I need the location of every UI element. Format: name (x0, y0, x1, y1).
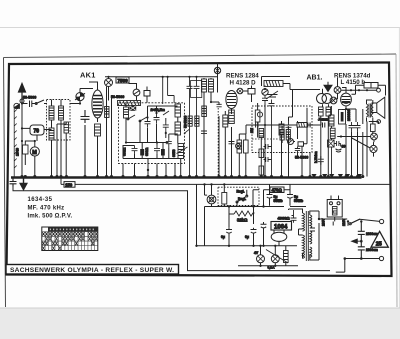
capacitor C35 (295, 147, 300, 153)
mains switch S5 (351, 219, 361, 224)
wires right section (337, 85, 385, 176)
wires in AVC box (282, 108, 310, 177)
trimmer C9 (163, 111, 169, 115)
coil L3 lower (49, 128, 54, 140)
label box 7500 (116, 77, 129, 83)
resistor R13 (284, 251, 289, 263)
electrolytic C40 (336, 149, 342, 152)
IF transformer T1 secondary (209, 79, 214, 92)
svg-text:4000Ω: 4000Ω (278, 216, 291, 221)
padder capacitor C8 (154, 114, 160, 124)
ladder capacitor C36 (264, 144, 272, 149)
ladder capacitor C37 (264, 157, 272, 162)
faint screenshot rule top (0, 27, 400, 29)
RENS1284 tube envelope (226, 91, 237, 109)
capacitor C19 (355, 122, 361, 131)
electrolytic C20 (267, 184, 273, 205)
capacitor C12 from top bus (187, 77, 193, 176)
circled jack lower right (371, 133, 378, 140)
label box two cells (364, 83, 378, 89)
coil L11a in AVC box (280, 130, 284, 141)
capacitor C44 AB1 cathode (318, 156, 324, 165)
power transformer T4 primary windings (303, 211, 312, 261)
wires detector (258, 77, 290, 177)
faint screenshot rule right (398, 28, 400, 339)
ground arrow (20, 178, 27, 190)
resistor R5 (223, 115, 228, 127)
earth lead arrow (14, 104, 19, 109)
lamp LP1 (257, 255, 265, 263)
resistor R7 in dashed box (255, 110, 260, 122)
jack circle small (236, 144, 241, 149)
valve data table (42, 227, 98, 251)
svg-text:2000cm: 2000cm (366, 248, 378, 252)
resistor R11 in box (222, 193, 227, 205)
svg-text:50-5000: 50-5000 (23, 96, 36, 100)
svg-text:1064: 1064 (274, 225, 288, 231)
wires AB1 (321, 78, 338, 177)
circle jack G1 (105, 79, 113, 87)
wire R1 (25, 141, 35, 165)
osc coil L7 right lower (175, 122, 181, 135)
earth lead hatched (14, 108, 17, 178)
voltage selector resistor (332, 207, 337, 216)
wires lamps (238, 246, 298, 266)
svg-text:32kΩ: 32kΩ (237, 218, 248, 223)
AB1 coils Jezam (319, 107, 324, 116)
series capacitor C41 AB1 grid (323, 123, 325, 128)
audio coupling wire with box (246, 122, 321, 134)
jack box lower (328, 140, 335, 147)
switch S2 (128, 115, 135, 119)
verticals from box to bus (123, 159, 181, 177)
RC ladder resistor R18 (259, 129, 264, 138)
svg-text:50Wb: 50Wb (294, 199, 303, 203)
mains terminal upper (380, 219, 384, 223)
trimmer C34 (288, 139, 294, 145)
warning triangle 25 (371, 231, 388, 247)
capacitor C39 (334, 141, 341, 146)
circled jack at bus right (370, 145, 377, 152)
box G3 (248, 89, 255, 95)
svg-text:M: M (32, 150, 37, 156)
svg-text:2×12,5m: 2×12,5m (151, 108, 165, 112)
switch S4 in box (237, 197, 246, 203)
svg-text:6μ: 6μ (245, 235, 249, 239)
schematic border frame (7, 63, 392, 277)
wire M to bus (34, 141, 36, 177)
capacitor C46 (217, 104, 222, 107)
tuning capacitor CV1 (76, 93, 84, 101)
oscillator coil L10 bottom right (178, 144, 184, 159)
capacitor C13 from top bus (194, 77, 200, 176)
svg-text:150: 150 (65, 182, 73, 187)
capacitor C30 bottom row (132, 146, 138, 154)
svg-text:MF. 470 kHz: MF. 470 kHz (28, 205, 65, 211)
trimmer C14 (262, 89, 268, 95)
page cut edge left (4, 58, 6, 308)
transformer wires (289, 209, 320, 260)
capacitor C16 (269, 100, 275, 177)
wires around R12 (229, 207, 254, 228)
svg-text:Regl.: Regl. (238, 197, 246, 201)
AK1 grid cap wire (89, 82, 98, 122)
svg-text:1634-35: 1634-35 (28, 197, 53, 203)
AK1 electrode hatching (93, 96, 102, 116)
wires RENS1284 (211, 91, 248, 177)
wire antenna down to bus (21, 104, 23, 177)
svg-text:50Wb: 50Wb (274, 199, 283, 203)
capacitor C25 (291, 210, 297, 223)
chassis arrow mid caps (352, 239, 362, 243)
wire trimmer-box column to bus (107, 87, 112, 177)
resistor R12 zigzag 32k (234, 211, 255, 216)
ground triangle small (324, 85, 332, 91)
RC ladder resistor R17 (259, 166, 264, 175)
circled cross fitting (214, 67, 220, 73)
screen resistor R19 (105, 107, 109, 118)
diode circle in detector box (257, 112, 262, 117)
capacitor C43 lower (166, 138, 172, 147)
svg-text:100000: 100000 (347, 110, 351, 121)
wires R9 jack (332, 106, 341, 177)
trimmer arrow through L10 (177, 147, 188, 154)
osc coil L6 right (175, 104, 181, 117)
IF transformer T2 horizontal (264, 81, 283, 87)
wire lower rail y=190.5 (13, 187, 330, 271)
pot wires (22, 128, 52, 141)
title box SACHSENWERK (6, 265, 179, 275)
svg-text:470Ω: 470Ω (272, 188, 283, 193)
svg-text:600Ω: 600Ω (145, 147, 149, 156)
coil L2 (59, 106, 64, 120)
electrolytic blob C33 (161, 149, 165, 156)
resistor R10 (371, 124, 376, 132)
resistor R20 (195, 116, 199, 126)
RC ladder resistor R16 (259, 149, 264, 158)
anode resistor R6 (229, 110, 235, 124)
svg-text:2000cm: 2000cm (366, 232, 378, 236)
svg-text:25: 25 (376, 241, 382, 247)
AK1 tube envelope (92, 90, 103, 118)
cathode capacitor C42 (229, 142, 235, 144)
dashed divider in box (252, 138, 278, 140)
output transformer T3 (367, 104, 373, 118)
svg-text:AK1: AK1 (80, 71, 96, 80)
capacitor C32 bottom row (154, 146, 160, 154)
svg-text:H 4128 D: H 4128 D (230, 79, 257, 86)
capacitor C26 mains (358, 222, 365, 247)
dashed coil box antenna filter (47, 100, 71, 141)
dashed box mains switch (218, 187, 259, 205)
ground bus (11, 176, 362, 178)
terminal circle speaker jack (377, 120, 381, 124)
speaker wires (367, 100, 373, 122)
electrolytic blob C31 (140, 149, 144, 156)
mains terminal lower (379, 256, 383, 260)
scanner grey strip bottom (0, 308, 400, 339)
capacitor C18 (349, 122, 355, 131)
svg-text:Regl.: Regl. (237, 189, 245, 193)
electrolytic C24 (261, 222, 267, 246)
series capacitor C38 (308, 123, 310, 128)
page cut edge right (396, 54, 397, 307)
wires inside oscillator box (123, 103, 184, 159)
earth terminal circle (14, 103, 19, 108)
label box on HT rail (64, 182, 75, 188)
wire coil to tuning cap to AK1 grid (70, 88, 94, 103)
label box 470 (270, 187, 284, 193)
small box G4 (298, 142, 304, 146)
switch S3 (140, 117, 147, 121)
switch S1 wave band (36, 100, 47, 104)
wires inside coil box (52, 100, 67, 177)
padder capacitor C7 (145, 118, 151, 128)
IF transformer T1 primary (202, 79, 207, 92)
oscillator dashed box (119, 103, 185, 164)
junction dots row2 (188, 88, 312, 178)
resistor R15 column (244, 140, 249, 153)
chassis arrowheads on bus (311, 174, 362, 178)
svg-text:Jezam: Jezam (318, 118, 329, 122)
junction dots mains (318, 218, 363, 260)
capacitor C1 ant series (22, 101, 36, 108)
capacitor C4 (81, 110, 90, 177)
mains wiring (319, 196, 380, 273)
svg-text:0050: 0050 (172, 149, 176, 157)
trimmer circle C5 (133, 89, 140, 96)
capacitor C17 (286, 121, 292, 131)
coil L12 small right (64, 122, 69, 133)
svg-text:SACHSENWERK OLYMPIA - REFLEX -: SACHSENWERK OLYMPIA - REFLEX - SUPER W. (10, 267, 174, 274)
T1 wires down (204, 78, 211, 177)
rectifier 1064 box (271, 222, 292, 231)
coil L8 (202, 106, 207, 117)
screen wire (251, 86, 253, 103)
svg-text:70: 70 (34, 129, 40, 135)
RENS1374d tube envelope (341, 93, 352, 106)
annotation text 1634-35 MF 470kHz (28, 197, 73, 220)
wires to AVC (282, 90, 321, 177)
switch S6 outside box (185, 129, 190, 133)
svg-text:50-5000: 50-5000 (111, 95, 124, 99)
rectifier bulb (271, 232, 287, 241)
loudspeaker (372, 97, 385, 118)
meter circle M (30, 147, 39, 156)
resistor R8 (279, 124, 284, 135)
anode structure RENS1374d (339, 110, 346, 125)
trimmer can box (191, 81, 202, 98)
cathode resistor R2 (95, 124, 101, 136)
antenna (19, 84, 26, 104)
wire HT rail y=184.5 (61, 183, 390, 185)
svg-text:7500: 7500 (118, 78, 129, 83)
electrolytic C22 (226, 228, 232, 246)
wires above oscillator box (109, 77, 148, 103)
wire 470 box (205, 190, 307, 207)
bus feed wires into oscillator (163, 77, 174, 104)
svg-text:6μ: 6μ (221, 235, 225, 239)
osc coil L5 (124, 107, 129, 118)
svg-text:1040: 1040 (16, 148, 20, 156)
AB1 duo diode tube (317, 94, 327, 104)
capacitor C45 (201, 131, 207, 133)
resistor R1 with label 1040 (23, 145, 29, 154)
svg-text:50-5000: 50-5000 (184, 115, 188, 128)
ferrite rod coil L4 (118, 101, 141, 106)
electrolytic C21 (287, 184, 293, 205)
junction dots right (319, 108, 364, 178)
circled jack PSU left (207, 195, 216, 204)
coil L9 arrow (268, 95, 278, 98)
wire from frame top to IF1 (217, 64, 219, 93)
volume potentiometer box 70 (30, 125, 44, 135)
circled cross AB1 output (330, 97, 337, 104)
coil L1 (49, 106, 54, 120)
resistor R14 column (237, 140, 242, 153)
coupling capacitor C ant-gnd (10, 178, 17, 187)
screen dashed line (217, 108, 219, 176)
wires R14 R15 (239, 134, 246, 177)
RENS1284 grid cap (237, 88, 243, 94)
grid wire to output jack (341, 89, 377, 91)
dashed box detector/AVC (252, 106, 312, 153)
page cut edge top (4, 54, 397, 58)
antenna terminal (20, 99, 24, 103)
electrolytic C23 (251, 228, 257, 246)
capacitor C10 upper (163, 122, 169, 131)
supply line into PSU (197, 184, 298, 246)
resistor R22 (188, 116, 192, 126)
svg-text:h.Volen: h.Volen (314, 151, 318, 163)
svg-text:2M: 2M (250, 128, 254, 133)
grid resistor R9 (329, 115, 334, 126)
junction dots left (20, 102, 99, 178)
coil L11b in AVC box (286, 130, 290, 141)
junction dots mid (107, 76, 182, 178)
svg-text:Imk. 500 Ω.P.V.: Imk. 500 Ω.P.V. (28, 214, 73, 220)
fuse box (327, 200, 342, 218)
lamp LP2 (271, 255, 279, 263)
circled cross right of AB1 (334, 87, 341, 94)
capacitor C15 (262, 95, 268, 103)
junction dots psu (195, 183, 276, 267)
svg-text:30: 30 (342, 145, 346, 149)
capacitor C27 mains (358, 247, 365, 259)
resistor R21 hatched (330, 128, 335, 138)
small box G2 (144, 91, 150, 97)
top bus HT (105, 76, 218, 78)
wire AK1 to bus (97, 136, 99, 177)
svg-text:AB1.: AB1. (307, 75, 323, 82)
switch lever diagonal (266, 250, 288, 264)
link box below rod (130, 106, 136, 111)
wires PSU top (197, 184, 260, 207)
